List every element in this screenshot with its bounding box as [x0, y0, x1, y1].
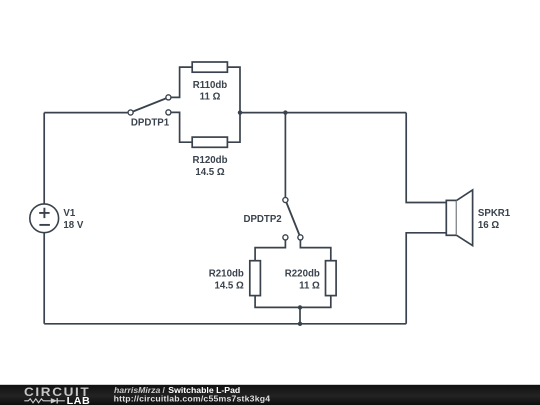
wire main top horizontal: [240, 112, 406, 114]
switch DPDTP1: [128, 95, 171, 115]
wire bottom rail: [44, 323, 406, 325]
footer bar: [0, 385, 540, 405]
resistor R120db: [192, 137, 227, 147]
wire DPDTP1 bottom throw to R120db: [171, 112, 192, 142]
svg-text:14.5 Ω: 14.5 Ω: [214, 280, 244, 291]
wire DPDTP1 top throw to R110db: [171, 67, 192, 97]
wire bottom stub to ground rail: [299, 307, 301, 323]
svg-text:R120db: R120db: [193, 155, 228, 166]
voltage source V1: [30, 204, 59, 233]
wire R110db right to junction: [227, 67, 240, 113]
svg-text:DPDTP1: DPDTP1: [131, 118, 170, 129]
svg-text:11 Ω: 11 Ω: [299, 280, 320, 291]
svg-text:R110db: R110db: [193, 80, 228, 91]
svg-text:LAB: LAB: [67, 397, 91, 405]
svg-text:14.5 Ω: 14.5 Ω: [195, 167, 225, 178]
node junction resistor bottoms: [298, 305, 302, 309]
wire resistor bottom connector: [255, 296, 331, 308]
svg-text:18 V: 18 V: [63, 220, 83, 231]
wire DPDTP2 right throw to R220db: [300, 240, 330, 260]
speaker SPKR1: [446, 190, 472, 246]
wire R120db right to junction: [227, 113, 240, 143]
svg-text:R220db: R220db: [285, 269, 320, 280]
wire left horizontal to DPDTP1 pole: [44, 112, 128, 114]
node junction bottom rail: [298, 322, 302, 326]
svg-text:16 Ω: 16 Ω: [478, 220, 499, 231]
wire left vertical bottom: [43, 233, 45, 324]
svg-text:DPDTP2: DPDTP2: [243, 214, 281, 225]
logo waveform resistor zigzag and diode: [24, 398, 65, 403]
node junction DPDTP2 riser: [283, 110, 287, 114]
wire right vertical bottom: [406, 233, 446, 324]
svg-text:R210db: R210db: [209, 269, 244, 280]
svg-text:11 Ω: 11 Ω: [200, 92, 221, 103]
node junction R110/R120 right: [238, 110, 242, 114]
resistor R220db: [326, 261, 337, 296]
wire right vertical top: [406, 113, 446, 203]
svg-text:http://circuitlab.com/c55ms7st: http://circuitlab.com/c55ms7stk3kg4: [114, 394, 271, 404]
wire DPDTP2 left throw to R210db: [255, 240, 285, 260]
resistor R110db: [192, 62, 227, 72]
switch DPDTP2: [283, 197, 303, 240]
wire left vertical top: [43, 113, 45, 204]
resistor R210db: [250, 261, 261, 296]
svg-text:SPKR1: SPKR1: [478, 208, 511, 219]
wire DPDTP2 pole riser: [284, 113, 286, 198]
svg-text:V1: V1: [63, 208, 75, 219]
